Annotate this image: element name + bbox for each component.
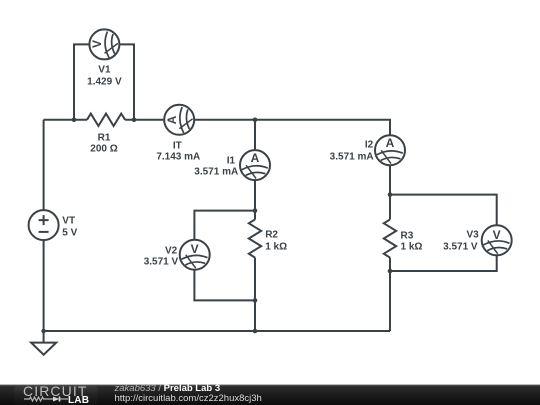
node junction dots xyxy=(41,118,392,334)
logo panel xyxy=(14,386,98,405)
wire R2 to rail xyxy=(254,258,256,331)
label V1 value xyxy=(87,76,121,87)
label V3 value xyxy=(443,241,477,252)
label R1 xyxy=(98,133,111,144)
label V1 xyxy=(98,65,110,76)
label VT xyxy=(62,215,75,226)
wire IT to I2 xyxy=(194,120,390,135)
voltmeter V2 xyxy=(180,240,210,270)
footer bar xyxy=(0,384,540,405)
meter letter I1 xyxy=(251,151,260,165)
meter letter IT xyxy=(165,115,179,124)
meter letter V2 xyxy=(191,242,199,256)
wire bottom rail xyxy=(44,330,390,332)
label R2 xyxy=(265,229,278,240)
node V3 bottom tap xyxy=(388,269,393,274)
footer text line 1 xyxy=(115,383,221,394)
node ground rail xyxy=(41,329,46,334)
label VT value xyxy=(62,227,77,238)
wire V1 loop right xyxy=(119,44,134,119)
label I1 value xyxy=(194,166,238,177)
wire R1 to IT xyxy=(125,119,164,121)
label IT xyxy=(173,140,182,151)
node R2 rail xyxy=(253,329,258,334)
wire VT top xyxy=(43,120,45,210)
wire I2 bottom xyxy=(389,165,391,194)
ammeter I1 xyxy=(240,150,270,180)
ammeter IT xyxy=(164,105,194,135)
label R2 value xyxy=(265,241,287,252)
node I1 branch xyxy=(253,118,258,123)
voltmeter V3 xyxy=(482,225,512,255)
meter letter V1 xyxy=(90,40,104,48)
label I2 xyxy=(365,140,373,151)
resistor R2 xyxy=(249,220,261,258)
meter letter V3 xyxy=(493,228,501,242)
ammeter I2 xyxy=(375,135,405,165)
label R1 value xyxy=(90,143,117,154)
label R3 xyxy=(401,230,414,241)
wire V2 loop bottom xyxy=(194,270,255,301)
node V2 top tap xyxy=(253,208,258,213)
label R3 value xyxy=(401,241,423,252)
node R1 right tap xyxy=(132,118,137,123)
wire V2 loop top xyxy=(194,211,255,240)
label V2 value xyxy=(144,256,178,267)
wire V1 loop left xyxy=(74,44,89,119)
resistor R1 xyxy=(87,114,125,126)
voltmeter V1 xyxy=(89,29,119,59)
wire R3 to rail xyxy=(389,258,391,331)
node V3 top tap xyxy=(388,192,393,197)
wire I1 bottom xyxy=(254,180,256,219)
wire VT bottom xyxy=(43,240,45,343)
label V3 xyxy=(466,230,478,241)
wire main top xyxy=(44,119,87,121)
meter letter I2 xyxy=(386,136,395,150)
label I2 value xyxy=(330,152,374,163)
logo resistor and diode xyxy=(23,395,69,403)
node V2 bottom tap xyxy=(253,298,258,303)
resistor R3 xyxy=(384,220,396,258)
label I1 xyxy=(227,156,235,167)
ground xyxy=(31,343,56,355)
wire V3 loop top xyxy=(390,195,497,226)
wire V3 loop bottom xyxy=(390,255,497,271)
wire R3 top lead xyxy=(389,195,391,220)
label V2 xyxy=(165,245,177,256)
CircuitLab logo text xyxy=(23,383,87,399)
wire I1 top xyxy=(254,120,256,150)
footer text line 2 xyxy=(115,393,262,404)
label IT value xyxy=(156,151,200,162)
node R1 left tap xyxy=(72,118,77,123)
voltage source VT xyxy=(29,210,59,240)
